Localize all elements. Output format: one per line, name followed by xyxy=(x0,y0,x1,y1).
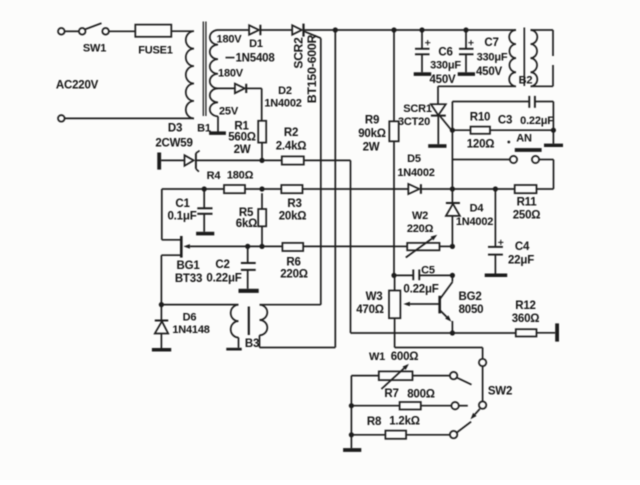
switch SW2 common contact xyxy=(479,359,486,366)
svg-text:C5: C5 xyxy=(421,264,435,276)
wire W2 left lead xyxy=(394,245,407,247)
C2 value label 0.22μF xyxy=(206,273,241,285)
resistor R10 xyxy=(471,127,491,134)
wire AN to R11 right xyxy=(537,160,554,190)
wire D3 to R2 xyxy=(196,159,282,161)
svg-text:180V: 180V xyxy=(217,33,243,45)
wire SW1 to FUSE1 xyxy=(109,30,135,32)
R2 value label 2.4kΩ xyxy=(276,141,307,153)
svg-text:D6: D6 xyxy=(183,311,197,323)
wire B3 secondary bottom xyxy=(260,347,336,349)
node C1 junction xyxy=(202,186,207,191)
diode D6 xyxy=(155,305,168,348)
svg-text:D2: D2 xyxy=(278,85,292,97)
SW2 bank ground terminal bar xyxy=(343,448,361,452)
diode D2 xyxy=(218,84,262,94)
wire SW2 vertical xyxy=(482,366,484,401)
SCR1 label xyxy=(403,103,432,115)
wire W1 right lead xyxy=(413,375,451,377)
svg-text:1N4148: 1N4148 xyxy=(172,324,209,336)
wire R3 to D5 xyxy=(303,188,409,190)
resistor R11 xyxy=(515,185,537,193)
svg-text:0.1μF: 0.1μF xyxy=(167,211,196,223)
C4 negative terminal bar xyxy=(485,274,508,278)
potentiometer W2 xyxy=(406,235,440,258)
node D4 top junction xyxy=(450,186,455,191)
wire SCR1 gate to R10 xyxy=(452,129,470,131)
R9 value label 90kΩ xyxy=(358,128,386,140)
svg-text:D4: D4 xyxy=(470,202,485,214)
svg-text:20kΩ: 20kΩ xyxy=(279,211,307,223)
transformer B3 secondary winding xyxy=(260,305,268,348)
D3 left terminal bar xyxy=(157,153,161,170)
diode D1 xyxy=(249,25,260,35)
svg-text:SW2: SW2 xyxy=(488,386,512,398)
svg-text:6kΩ: 6kΩ xyxy=(236,218,257,230)
wire B2 primary bottom to SCR1 xyxy=(438,86,516,104)
SW2 contact W1 row xyxy=(450,372,472,385)
C7 label xyxy=(484,37,498,49)
pushbutton AN xyxy=(510,148,542,163)
D5 value label 1N4002 xyxy=(397,167,434,179)
R1 value label 2W xyxy=(234,144,251,156)
B2 label xyxy=(519,74,533,86)
svg-text:C6: C6 xyxy=(438,47,452,59)
svg-text:330μF: 330μF xyxy=(477,51,508,63)
R2 label xyxy=(284,127,298,139)
wire R12 to terminal xyxy=(537,332,556,334)
wire AC low to B1 primary xyxy=(65,117,194,119)
R4 label xyxy=(207,170,222,182)
B1 common terminal bar xyxy=(209,131,226,135)
wire W3 bottom to SW2 xyxy=(395,318,483,359)
D6 label xyxy=(183,311,197,323)
D1 value label 1N5408 xyxy=(235,53,275,65)
BG2 label xyxy=(458,291,481,303)
wire R10 to C3 junction xyxy=(490,129,553,131)
transformer B3 primary winding xyxy=(231,305,239,348)
SCR1 value label 3CT20 xyxy=(398,116,430,128)
svg-text:450V: 450V xyxy=(429,74,456,86)
R4 value label 180Ω xyxy=(227,169,254,181)
B1 label xyxy=(197,122,211,134)
C6 negative terminal bar xyxy=(414,72,432,76)
resistor R7 xyxy=(400,402,421,410)
wire rail to R9 xyxy=(393,30,395,121)
D4 label xyxy=(470,202,485,214)
svg-text:D3: D3 xyxy=(168,123,182,135)
svg-text:D5: D5 xyxy=(407,153,421,165)
node C2 junction xyxy=(245,244,250,249)
C2 ground terminal bar xyxy=(239,289,259,293)
svg-text:560Ω: 560Ω xyxy=(228,132,256,144)
capacitor C4 xyxy=(488,189,503,274)
svg-text:600Ω: 600Ω xyxy=(391,351,419,363)
BG2 value label 8050 xyxy=(459,304,484,316)
C4 label xyxy=(515,241,530,253)
svg-text:W2: W2 xyxy=(412,210,428,222)
potentiometer W1 xyxy=(379,364,413,389)
C5 value label 0.22μF xyxy=(403,284,438,296)
R9 value label 2W xyxy=(363,142,380,154)
svg-text:R8: R8 xyxy=(367,416,382,428)
svg-text:2W: 2W xyxy=(234,144,251,156)
transformer B3 core xyxy=(248,307,250,336)
C1 value label 0.1μF xyxy=(167,211,196,223)
SCR2 value label BT150-600R xyxy=(305,34,319,103)
wire B2 secondary top lead xyxy=(531,30,554,56)
capacitor C6 xyxy=(415,30,430,72)
node R5 bottom junction xyxy=(259,244,264,249)
svg-text:R11: R11 xyxy=(517,197,538,209)
wire top rail xyxy=(304,29,517,31)
node rail-R9 junction xyxy=(391,27,396,32)
svg-text:22μF: 22μF xyxy=(508,255,534,267)
C1 ground terminal bar xyxy=(196,232,214,236)
SCR1 cathode terminal bar xyxy=(428,144,446,148)
svg-text:R2: R2 xyxy=(284,127,298,139)
svg-text:250Ω: 250Ω xyxy=(513,210,541,222)
svg-text:R9: R9 xyxy=(365,115,379,127)
R1 value label 560Ω xyxy=(228,132,256,144)
node BG1 base2 junction xyxy=(159,302,164,307)
resistor R2 xyxy=(282,156,304,164)
svg-text:R6: R6 xyxy=(286,257,300,269)
svg-text:C1: C1 xyxy=(175,198,190,210)
wire C3 top row xyxy=(452,101,553,103)
transformer B1 secondary winding xyxy=(210,30,218,116)
wire R4 row left xyxy=(162,189,224,240)
svg-text:220Ω: 220Ω xyxy=(280,269,308,281)
wire emitter rail xyxy=(351,332,516,334)
resistor R3 xyxy=(281,185,302,193)
resistor R9 xyxy=(389,121,398,141)
wire rail to B3 secondary bottom xyxy=(334,30,336,348)
node R7 row junction xyxy=(349,403,354,408)
W2 label xyxy=(412,210,428,222)
D4 value label 1N4002 xyxy=(456,216,493,228)
C3 label xyxy=(498,115,512,127)
R8 value label 1.2kΩ xyxy=(389,416,420,428)
svg-text:C4: C4 xyxy=(515,241,530,253)
wire left column SW2 bank xyxy=(350,376,352,449)
R7 label xyxy=(384,388,398,400)
wire BG1 emitter row xyxy=(183,244,282,249)
node C5 right junction xyxy=(450,273,455,278)
R10 value label 120Ω xyxy=(467,139,495,151)
wire BG1 to B3 primary xyxy=(161,304,238,306)
transistor BG1 xyxy=(161,236,181,305)
wire R5 top xyxy=(261,193,263,209)
potentiometer W3 xyxy=(389,291,440,319)
node C5 left junction xyxy=(391,273,396,278)
svg-text:8050: 8050 xyxy=(459,304,484,316)
wire R8 right lead xyxy=(406,434,450,436)
svg-text:B2: B2 xyxy=(519,74,533,86)
wire R7 left lead xyxy=(351,405,399,407)
wire R4 to R3 xyxy=(245,188,281,190)
wire FUSE1 to B1 xyxy=(171,30,194,32)
node C4 top junction xyxy=(493,186,498,191)
svg-text:B3: B3 xyxy=(245,338,259,350)
W2 value label 220Ω xyxy=(407,223,434,235)
wire B3 secondary top to gate line xyxy=(260,304,321,306)
switch SW2 pole xyxy=(471,401,487,419)
wire W1 left lead xyxy=(351,375,378,377)
B1 secondary 25V label xyxy=(219,105,239,117)
thyristor SCR2 xyxy=(292,24,321,39)
AN label xyxy=(507,132,532,144)
W1 label xyxy=(369,351,385,363)
B3 primary ground terminal bar xyxy=(226,348,241,351)
R1 label xyxy=(234,121,249,133)
svg-text:330μF: 330μF xyxy=(430,59,461,71)
B3 label xyxy=(245,338,259,350)
svg-text:B1: B1 xyxy=(197,122,211,134)
R12 value label 360Ω xyxy=(512,313,540,325)
svg-text:2CW59: 2CW59 xyxy=(155,138,192,150)
W3 value label 470Ω xyxy=(356,304,384,316)
AC input lower terminal xyxy=(58,115,65,122)
R12 right terminal bar xyxy=(555,323,559,341)
SW2 contact R7 row xyxy=(451,402,467,409)
svg-text:1N5408: 1N5408 xyxy=(235,53,275,65)
wire D2 to R1 xyxy=(261,88,263,120)
wire R6 to W2 column xyxy=(303,245,394,247)
thyristor SCR1 xyxy=(431,104,452,144)
wire B1 top tap to D1 xyxy=(218,29,249,31)
svg-text:D1: D1 xyxy=(249,38,263,50)
transformer B1 primary winding xyxy=(186,31,194,118)
svg-text:0.22μF: 0.22μF xyxy=(520,115,554,127)
diode D4 xyxy=(446,189,460,246)
svg-text:120Ω: 120Ω xyxy=(467,139,495,151)
wire R2 to emitter rail xyxy=(304,160,351,333)
C4 value label 22μF xyxy=(508,255,534,267)
C2 label xyxy=(215,259,229,271)
svg-text:AC220V: AC220V xyxy=(56,80,99,92)
fuse FUSE1 xyxy=(135,25,171,37)
BG1 value label BT33 xyxy=(175,273,202,285)
svg-text:800Ω: 800Ω xyxy=(407,389,435,401)
svg-text:450V: 450V xyxy=(476,66,503,78)
C1 label xyxy=(175,198,190,210)
R5 value label 6kΩ xyxy=(236,218,257,230)
svg-text:BT33: BT33 xyxy=(175,273,202,285)
svg-text:SCR2: SCR2 xyxy=(292,37,306,69)
resistor R5 xyxy=(258,209,266,226)
D6 ground terminal bar xyxy=(152,348,171,352)
wire R7 right lead xyxy=(421,405,452,407)
B1 secondary 180V lower label xyxy=(218,67,244,79)
capacitor C2 xyxy=(241,246,256,288)
C6 label xyxy=(438,47,452,59)
diode D5 xyxy=(408,184,421,194)
W3 label xyxy=(366,291,383,303)
wire AN row xyxy=(452,159,510,161)
svg-text:2.4kΩ: 2.4kΩ xyxy=(276,141,307,153)
wire C3 right vertical xyxy=(552,102,554,144)
D2 value label 1N4002 xyxy=(264,97,301,109)
wire R9 to W2 row xyxy=(393,141,395,275)
svg-text:AN: AN xyxy=(516,132,532,144)
R12 label xyxy=(515,300,536,312)
D5 label xyxy=(407,153,421,165)
svg-text:R4: R4 xyxy=(207,170,222,182)
B1 secondary 180V tap label xyxy=(217,33,243,45)
R7 value label 800Ω xyxy=(407,389,435,401)
svg-text:R3: R3 xyxy=(287,198,301,210)
svg-text:1.2kΩ: 1.2kΩ xyxy=(389,416,420,428)
D3 value label 2CW59 xyxy=(155,138,192,150)
resistor R4 xyxy=(224,185,245,193)
resistor R12 xyxy=(516,329,537,336)
D2 label xyxy=(278,85,292,97)
wire D5 to R11 xyxy=(421,188,515,190)
terminal bar right of AN xyxy=(544,144,563,147)
svg-text:R12: R12 xyxy=(515,300,536,312)
wire W3 top xyxy=(394,275,396,290)
transistor BG2 xyxy=(440,275,453,333)
svg-text:25V: 25V xyxy=(219,105,239,117)
zener diode D3 xyxy=(161,151,200,172)
resistor R6 xyxy=(282,243,303,251)
node SCR1 gate junction xyxy=(450,128,455,133)
C6 value label 450V xyxy=(429,74,456,86)
svg-text:C3: C3 xyxy=(498,115,512,127)
wire SCR1 gate vertical xyxy=(451,102,453,190)
node rail-C6 junction xyxy=(419,27,424,32)
transformer B1 core xyxy=(203,22,206,117)
SW2 contact R8 row xyxy=(450,422,471,439)
R11 value label 250Ω xyxy=(513,210,541,222)
node BG2 emitter junction xyxy=(450,330,455,335)
wire B1 secondary bottom xyxy=(217,116,219,131)
capacitor C7 xyxy=(459,30,474,72)
svg-text:180Ω: 180Ω xyxy=(227,169,254,181)
svg-text:1N4002: 1N4002 xyxy=(264,97,301,109)
svg-text:SCR1: SCR1 xyxy=(403,103,432,115)
switch SW1 xyxy=(58,23,109,34)
svg-text:W3: W3 xyxy=(366,291,383,303)
svg-text:C2: C2 xyxy=(215,259,229,271)
svg-text:470Ω: 470Ω xyxy=(356,304,384,316)
svg-text:1N4002: 1N4002 xyxy=(456,216,493,228)
C7 value label 450V xyxy=(476,66,503,78)
wire R1 to D3 row xyxy=(261,143,263,161)
R5 label xyxy=(239,207,254,219)
B1 winding tap dash xyxy=(226,57,235,59)
D6 value label 1N4148 xyxy=(172,324,209,336)
SW2 label xyxy=(488,386,512,398)
transformer B2 core xyxy=(523,28,525,87)
C3 value label 0.22μF xyxy=(520,115,554,127)
transformer B2 primary winding xyxy=(509,30,516,86)
wire D1 to SCR2 xyxy=(260,29,292,31)
C7 value label 330μF xyxy=(477,51,508,63)
svg-text:0.22μF: 0.22μF xyxy=(206,273,241,285)
svg-text:R7: R7 xyxy=(384,388,398,400)
wire SCR2 gate vertical xyxy=(320,38,322,305)
capacitor C1 xyxy=(197,189,212,232)
wire R5 bottom xyxy=(261,226,263,246)
C7 negative terminal bar xyxy=(458,72,475,76)
svg-text:180V: 180V xyxy=(218,67,244,79)
FUSE1 label xyxy=(138,44,173,56)
R10 label xyxy=(470,112,491,124)
SCR2 label xyxy=(292,37,306,69)
svg-text:C7: C7 xyxy=(484,37,498,49)
D1 label xyxy=(249,38,263,50)
svg-text:SW1: SW1 xyxy=(83,42,106,54)
R6 value label 220Ω xyxy=(280,269,308,281)
svg-text:3CT20: 3CT20 xyxy=(398,116,430,128)
wire B2 secondary bottom lead xyxy=(531,65,554,86)
R6 label xyxy=(286,257,300,269)
resistor R8 xyxy=(385,431,406,439)
svg-text:FUSE1: FUSE1 xyxy=(138,44,173,56)
svg-text:BG1: BG1 xyxy=(176,260,200,272)
node R10-C3 junction xyxy=(551,128,556,133)
svg-text:220Ω: 220Ω xyxy=(407,223,434,235)
svg-text:1N4002: 1N4002 xyxy=(397,167,434,179)
AC220V label xyxy=(56,80,99,92)
capacitor C3 xyxy=(529,96,535,108)
node R1-R5 row junction xyxy=(259,186,264,191)
wire W2 right lead xyxy=(440,245,453,247)
svg-text:BG2: BG2 xyxy=(458,291,481,303)
svg-text:90kΩ: 90kΩ xyxy=(358,128,386,140)
BG1 label xyxy=(176,260,200,272)
node rail-C7 junction xyxy=(463,27,468,32)
SW1 label xyxy=(83,42,106,54)
R9 label xyxy=(365,115,379,127)
R3 label xyxy=(287,198,301,210)
svg-text:2W: 2W xyxy=(363,142,380,154)
node R8 row junction xyxy=(349,432,354,437)
C6 value label 330μF xyxy=(430,59,461,71)
svg-text:R10: R10 xyxy=(470,112,491,124)
node D4-W2 junction xyxy=(450,244,455,249)
svg-text:BT150-600R: BT150-600R xyxy=(305,34,319,103)
svg-text:360Ω: 360Ω xyxy=(512,313,540,325)
R8 label xyxy=(367,416,382,428)
svg-text:W1: W1 xyxy=(369,351,385,363)
R3 value label 20kΩ xyxy=(279,211,307,223)
W1 value label 600Ω xyxy=(391,351,419,363)
wire R8 left lead xyxy=(351,434,385,436)
C5 label xyxy=(421,264,435,276)
capacitor C5 xyxy=(394,270,452,281)
node R1 bottom junction xyxy=(259,158,264,163)
transformer B2 secondary winding xyxy=(531,30,538,86)
R11 label xyxy=(517,197,538,209)
node rail-B3 junction xyxy=(333,27,338,32)
D3 label xyxy=(168,123,182,135)
resistor R1 xyxy=(258,121,266,143)
svg-text:0.22μF: 0.22μF xyxy=(403,284,438,296)
